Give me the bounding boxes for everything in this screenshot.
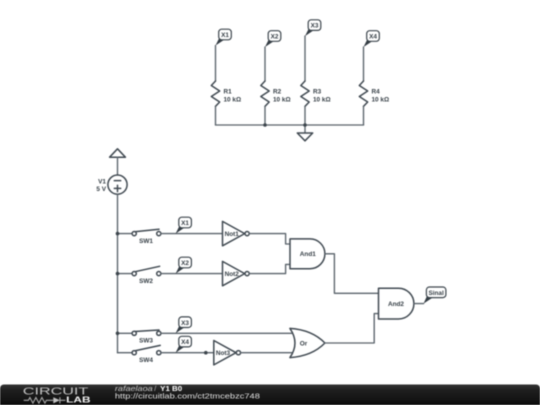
svg-text:10 kΩ: 10 kΩ <box>273 97 291 104</box>
svg-text:X3: X3 <box>181 320 189 327</box>
wire R4 to rail <box>363 106 365 125</box>
svg-text:X4: X4 <box>181 339 189 346</box>
svg-text:SW3: SW3 <box>139 338 153 345</box>
wire bus to SW3 <box>118 332 132 334</box>
wire SW3 to Or input A <box>161 332 295 334</box>
svg-text:SW2: SW2 <box>139 278 153 285</box>
svg-text:SW4: SW4 <box>139 357 153 364</box>
svg-text:http://circuitlab.com/ct2tmceb: http://circuitlab.com/ct2tmcebzc748 <box>115 392 260 401</box>
node flag X4 (switch row) <box>176 336 192 352</box>
svg-text:X4: X4 <box>369 34 377 41</box>
wire flag X1 to R1 <box>215 46 217 82</box>
wire flag X2 to R2 <box>264 47 266 81</box>
resistor R4 <box>359 81 367 106</box>
inverter Not2 <box>223 261 250 285</box>
junction node bus-SW1 <box>116 232 120 236</box>
wire SW1 to Not1 <box>161 233 223 235</box>
and gate And1 <box>290 239 325 269</box>
or gate Or <box>290 328 325 357</box>
wire R2 to rail <box>264 106 266 125</box>
wire SW2 to Not2 <box>161 273 223 275</box>
wire Not1 to And1 input A <box>249 234 290 244</box>
svg-text:Not3: Not3 <box>216 350 231 357</box>
wire power flag to V1 <box>117 157 119 175</box>
label R1 value <box>224 89 242 104</box>
svg-text:X3: X3 <box>311 23 319 30</box>
wire rail to ground <box>304 125 306 133</box>
wire Not3 to Or input B <box>241 352 294 354</box>
node flag X4 (top) <box>364 31 380 47</box>
svg-text:Or: Or <box>300 341 308 348</box>
svg-text:R3: R3 <box>313 89 322 96</box>
inverter Not3 <box>214 341 241 365</box>
svg-text:R2: R2 <box>273 89 282 96</box>
node flag X3 (switch row) <box>176 317 192 333</box>
label R4 value <box>372 89 390 104</box>
svg-text:SW1: SW1 <box>139 238 153 245</box>
svg-text:And2: And2 <box>388 301 404 308</box>
label R2 value <box>273 89 291 104</box>
svg-text:X2: X2 <box>181 260 189 267</box>
junction node bus-SW3 <box>116 332 120 336</box>
footer bar <box>0 385 540 405</box>
switch SW1 <box>132 229 161 236</box>
wire Not2 to And1 input B <box>249 264 290 273</box>
resistor R2 <box>261 81 269 106</box>
svg-text:10 kΩ: 10 kΩ <box>313 97 331 104</box>
wire SW4 to Not3 <box>161 352 214 354</box>
label V1 value <box>96 179 106 194</box>
switch SW2 <box>132 266 161 275</box>
label R3 value <box>313 89 331 104</box>
junction node X4-Not3 <box>204 351 208 355</box>
svg-text:Sinal: Sinal <box>428 290 443 297</box>
svg-text:LAB: LAB <box>66 395 90 405</box>
svg-text:10 kΩ: 10 kΩ <box>224 97 242 104</box>
switch SW3 <box>132 330 161 335</box>
svg-text:5 V: 5 V <box>96 186 106 193</box>
node flag X2 (top) <box>265 31 281 47</box>
logo schematic glyph <box>24 397 66 403</box>
wire bottom rail <box>216 124 364 126</box>
svg-text:R4: R4 <box>372 89 381 96</box>
svg-text:Not2: Not2 <box>225 271 240 278</box>
resistor R1 <box>211 81 219 106</box>
junction node bus-SW2 <box>116 272 120 276</box>
wire bus to SW2 <box>118 273 132 275</box>
node flag X3 (top) <box>305 20 321 36</box>
node flag X1 (switch row) <box>176 217 192 233</box>
svg-text:Not1: Not1 <box>225 231 240 238</box>
junction node rail-R3 <box>303 123 307 127</box>
wire bus to SW1 <box>118 233 132 235</box>
svg-text:X1: X1 <box>181 220 189 227</box>
node flag X2 (switch row) <box>176 257 192 273</box>
switch SW4 <box>132 345 161 354</box>
wire flag X4 to R4 <box>363 47 365 81</box>
inverter Not1 <box>223 221 250 245</box>
wire bus to SW4 <box>118 352 132 354</box>
svg-text:V1: V1 <box>98 179 106 186</box>
node flag Sinal <box>424 287 446 304</box>
wire R3 to rail <box>304 106 306 125</box>
wire flag X3 to R3 <box>304 36 306 81</box>
wire Or to And2 input B <box>325 314 379 343</box>
voltage source V1 <box>108 175 127 194</box>
power flag of V1 <box>110 149 126 157</box>
node flag X1 (top) <box>216 29 232 45</box>
svg-text:X1: X1 <box>221 32 229 39</box>
svg-text:R1: R1 <box>224 89 233 96</box>
wire And2 to flag Sinal <box>414 303 424 305</box>
junction node rail-R2 <box>263 123 267 127</box>
resistor R3 <box>301 81 309 106</box>
svg-text:X2: X2 <box>271 34 279 41</box>
wire And1 to And2 input A <box>325 254 379 293</box>
svg-text:10 kΩ: 10 kΩ <box>372 97 390 104</box>
ground <box>297 133 312 141</box>
wire R1 to rail <box>215 106 217 125</box>
and gate And2 <box>379 288 414 319</box>
svg-text:And1: And1 <box>300 251 316 258</box>
wire V1 down bus <box>117 194 119 353</box>
